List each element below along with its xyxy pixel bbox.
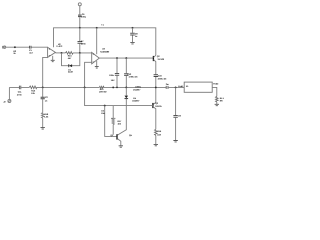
wire U3 lower input bbox=[85, 62, 92, 87]
svg-text:1000u 25: 1000u 25 bbox=[158, 77, 168, 80]
node bottom-2 bbox=[84, 86, 86, 88]
svg-text:1n: 1n bbox=[45, 100, 48, 103]
fuse F1 bbox=[166, 86, 168, 89]
node input bbox=[14, 46, 16, 48]
resistor R17 bbox=[111, 117, 115, 119]
wire C4 branch bbox=[125, 58, 127, 87]
capacitor C1 bbox=[30, 46, 31, 49]
wire U2 output bbox=[55, 52, 65, 54]
wire power stem bbox=[79, 6, 81, 28]
wire C2 branch bbox=[42, 87, 44, 112]
svg-text:Q2: Q2 bbox=[157, 55, 161, 58]
transistor Q2 collector bbox=[154, 55, 156, 57]
wire R16 to ground bbox=[155, 135, 157, 144]
svg-text:16V: 16V bbox=[111, 79, 115, 82]
diode D5 bbox=[125, 87, 127, 95]
svg-text:C1: C1 bbox=[29, 49, 33, 52]
svg-text:1u: 1u bbox=[135, 35, 138, 38]
svg-text:8R: 8R bbox=[220, 100, 223, 103]
wire R15 to node bbox=[73, 52, 92, 54]
wire feedback loop bbox=[62, 53, 80, 66]
svg-text:C9: C9 bbox=[178, 115, 182, 118]
transistor Q3 collector bbox=[153, 103, 156, 105]
svg-text:Pad2: Pad2 bbox=[213, 82, 219, 85]
svg-text:TIP120: TIP120 bbox=[157, 58, 165, 61]
svg-text:4148: 4148 bbox=[68, 71, 73, 74]
node R15 right bbox=[79, 52, 81, 54]
svg-text:1N4007: 1N4007 bbox=[132, 100, 140, 103]
svg-text:10R 5W: 10R 5W bbox=[99, 91, 107, 94]
svg-text:TL072: TL072 bbox=[56, 45, 63, 48]
ground C9 bbox=[173, 141, 177, 142]
resistor R15 bbox=[66, 52, 74, 55]
svg-text:R16: R16 bbox=[157, 130, 162, 133]
node wire2-1 bbox=[104, 105, 106, 107]
node J-rail-1 bbox=[79, 27, 81, 29]
node bottom-4 bbox=[116, 87, 118, 89]
wire C10 to bottom rail bbox=[155, 77, 157, 103]
svg-text:1.5k: 1.5k bbox=[44, 116, 49, 119]
resistor R18 bbox=[42, 113, 44, 119]
ground Q1 bbox=[119, 146, 123, 147]
transistor Q2 emitter bbox=[154, 60, 156, 75]
capacitor C4 bbox=[124, 74, 128, 76]
ground U2 bbox=[52, 56, 54, 60]
wire RL1 to ground bbox=[216, 102, 218, 104]
wire U3 output bbox=[99, 57, 153, 59]
node J-rail-3 bbox=[132, 27, 134, 29]
svg-text:4700u 25: 4700u 25 bbox=[129, 75, 139, 78]
ground R16 bbox=[154, 144, 158, 145]
relay box X1 bbox=[184, 82, 212, 92]
wire2 mid bbox=[85, 87, 153, 105]
svg-text:Q3: Q3 bbox=[155, 102, 159, 105]
node U2 out bbox=[61, 52, 63, 54]
wire C3 branch bbox=[116, 58, 118, 87]
wire input bbox=[6, 46, 48, 48]
capacitor C8 bbox=[130, 33, 135, 35]
power terminal P1 bbox=[78, 3, 81, 6]
capacitor C6 bbox=[78, 15, 82, 17]
svg-text:4u7: 4u7 bbox=[29, 52, 33, 55]
node J-rail-2 T1 bbox=[96, 27, 98, 29]
svg-text:1N4007: 1N4007 bbox=[133, 88, 141, 91]
svg-text:Pad1: Pad1 bbox=[178, 85, 184, 88]
svg-text:J2: J2 bbox=[3, 100, 6, 103]
svg-text:U3: U3 bbox=[102, 48, 106, 51]
diode D1 feedback bbox=[68, 64, 70, 67]
node bottom-5 bbox=[125, 86, 127, 88]
svg-text:T1: T1 bbox=[101, 23, 104, 26]
op-amp U3 bbox=[92, 52, 100, 63]
svg-text:D5: D5 bbox=[133, 97, 137, 100]
svg-text:TIP125: TIP125 bbox=[155, 105, 163, 108]
capacitor C7 bbox=[78, 42, 83, 44]
svg-text:1000u: 1000u bbox=[135, 86, 142, 89]
wire R18 to ground bbox=[42, 118, 44, 127]
capacitor C3 bbox=[115, 74, 119, 76]
svg-text:100u: 100u bbox=[81, 16, 86, 19]
wire C7 branch bbox=[79, 28, 81, 53]
svg-text:X1: X1 bbox=[186, 85, 189, 88]
capacitor C2 bbox=[41, 97, 45, 99]
svg-text:Q5: Q5 bbox=[129, 134, 133, 137]
svg-text:C11: C11 bbox=[18, 91, 23, 94]
ground U3 bbox=[96, 61, 98, 67]
node bottom-1 bbox=[42, 86, 44, 88]
wire left end down bbox=[8, 87, 10, 99]
wire U2 inverting bbox=[43, 57, 48, 87]
wire C5 branch to Q1 base bbox=[105, 106, 117, 137]
svg-text:100u: 100u bbox=[109, 74, 114, 77]
svg-text:C10: C10 bbox=[158, 75, 163, 78]
svg-text:1k8: 1k8 bbox=[157, 133, 161, 136]
resistor R13 bbox=[29, 86, 37, 89]
ground R18 bbox=[41, 128, 45, 129]
node out-2 bbox=[125, 57, 127, 59]
wire C8 branch bbox=[132, 28, 134, 42]
capacitor C9 bbox=[173, 116, 177, 118]
svg-text:NJM4580: NJM4580 bbox=[100, 51, 110, 54]
resistor R16 bbox=[155, 129, 158, 135]
terminal J2 bbox=[8, 100, 11, 103]
transistor Q3 emitter bbox=[153, 107, 156, 130]
node bottom-6 bbox=[155, 86, 157, 88]
wire D5 down to Q1 bbox=[118, 99, 127, 135]
transistor Q3 base bar bbox=[152, 103, 154, 108]
svg-text:2m: 2m bbox=[166, 83, 169, 86]
capacitor C10 bbox=[154, 75, 158, 77]
input terminal J1 bbox=[2, 46, 4, 49]
svg-text:470n: 470n bbox=[17, 93, 22, 96]
resistor R11 bbox=[99, 86, 104, 88]
op-amp U2 bbox=[48, 47, 56, 57]
node bottom-3 bbox=[112, 86, 114, 88]
wire T1 drop to U3 bbox=[96, 28, 98, 54]
+V rail wire bbox=[54, 28, 156, 56]
transistor Q2 base bar bbox=[152, 56, 154, 61]
svg-text:1k: 1k bbox=[13, 52, 16, 55]
node bottom-7 bbox=[175, 86, 177, 88]
wire X1 output bbox=[212, 87, 217, 96]
capacitor C11 bbox=[19, 86, 20, 90]
resistor RL1 bbox=[216, 96, 219, 102]
ground RL1 bbox=[215, 104, 219, 105]
node out-1 bbox=[116, 57, 118, 59]
transistor Q1 emitter bbox=[117, 139, 120, 146]
svg-text:100n: 100n bbox=[81, 42, 86, 45]
wire bottom rail bbox=[9, 86, 184, 88]
ground C8 bbox=[130, 42, 134, 44]
svg-text:C2: C2 bbox=[45, 96, 49, 99]
wire C9 branch bbox=[175, 87, 177, 140]
transistor Q1 base bar bbox=[116, 134, 118, 139]
